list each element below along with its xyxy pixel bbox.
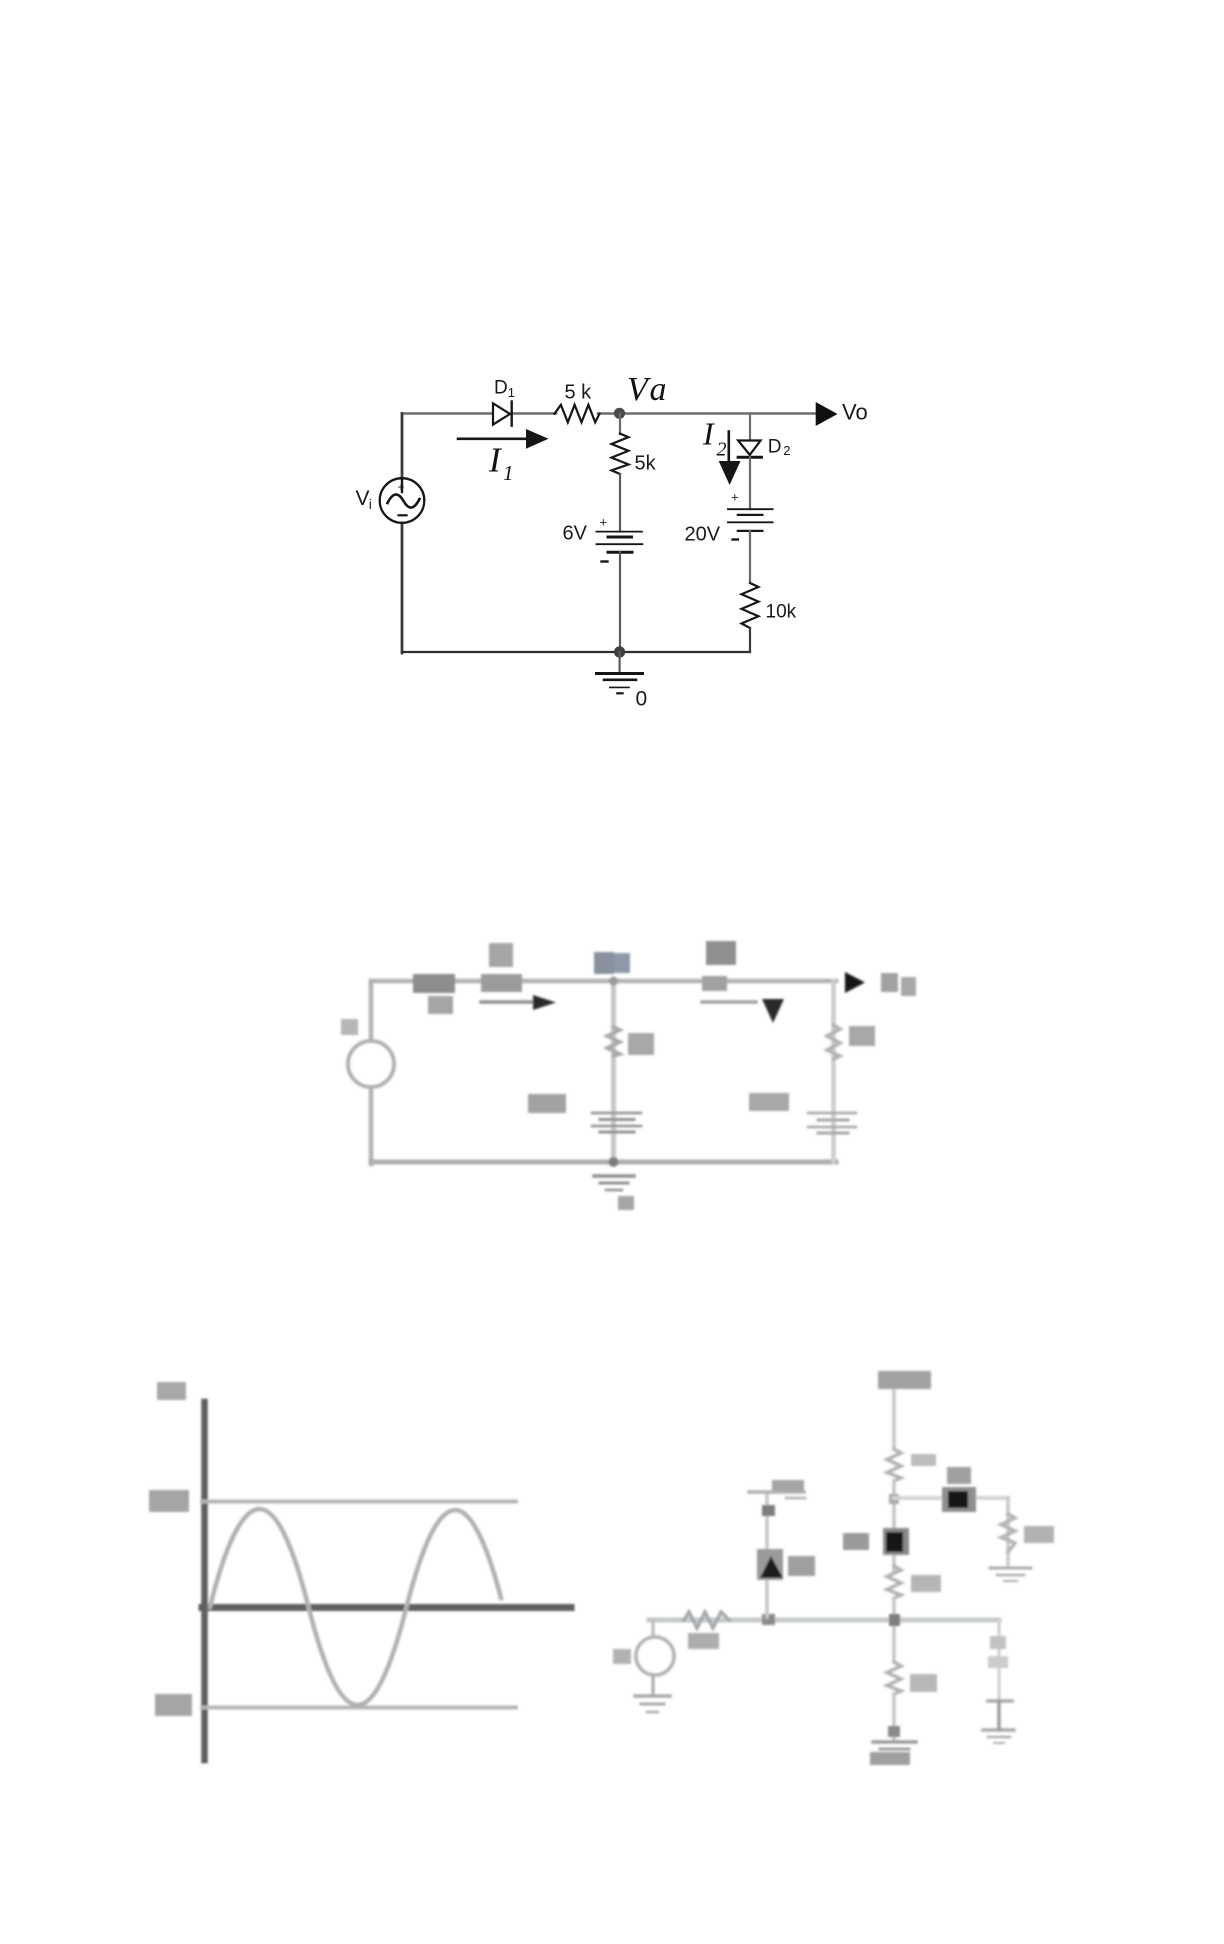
svg-text:5k: 5k [635, 453, 657, 475]
battery right blob [808, 1113, 856, 1133]
label 6V [528, 1094, 566, 1113]
svg-text:I: I [702, 416, 715, 452]
label D2 [706, 941, 736, 965]
sine wave [210, 1509, 501, 1705]
wire to ground center [892, 1694, 896, 1740]
wire diode branch vertical [765, 1494, 769, 1617]
wire right vertical branch [831, 981, 836, 1162]
wire top mid (D1 to R 5k) [512, 412, 556, 415]
label +V [149, 1490, 189, 1512]
resistor 5k vertical [612, 434, 629, 475]
wire 6V battery to bottom node [619, 552, 621, 652]
current arrow I1 [481, 1000, 533, 1004]
label +10V supply [878, 1371, 931, 1389]
wire bottom horizontal [402, 651, 750, 653]
x axis [202, 1604, 571, 1611]
label Vi [341, 1019, 358, 1035]
label D2 [768, 437, 791, 459]
voltage source Vi circle [636, 1637, 674, 1675]
label RE value [911, 1575, 941, 1592]
label -10V [870, 1752, 910, 1765]
resistor RS on main wire [684, 1612, 729, 1628]
label Vo [881, 973, 898, 992]
wire top left horizontal (Vi to D1) [402, 412, 493, 415]
ground [594, 1176, 634, 1190]
svg-text:1: 1 [508, 385, 515, 400]
wire node to ground [618, 652, 620, 673]
supply bar top [749, 1492, 805, 1498]
level line +V [202, 1500, 516, 1504]
wire mid vertical branch [611, 981, 616, 1162]
svg-text:2: 2 [783, 443, 790, 458]
label 0 [618, 1196, 634, 1210]
output arrow Vo [816, 402, 838, 426]
y axis [201, 1402, 208, 1760]
label zener value [788, 1556, 815, 1576]
label D1 [494, 378, 515, 401]
label RC value [911, 1454, 936, 1466]
diode D2 blob on wire [702, 976, 727, 991]
node Va label [594, 952, 614, 974]
ground below source [635, 1675, 670, 1712]
svg-text:a: a [650, 371, 667, 408]
wire main horizontal [649, 1618, 999, 1623]
resistor RL blob [1001, 1514, 1015, 1552]
wire left vertical [369, 981, 374, 1041]
wire emitter down [892, 1598, 896, 1662]
svg-text:I: I [488, 441, 503, 480]
svg-text:+: + [600, 515, 608, 530]
wire top horizontal [371, 979, 836, 984]
svg-text:Vo: Vo [842, 400, 868, 425]
node ground junction dot [614, 646, 625, 657]
svg-text:D: D [494, 378, 508, 399]
label right resistor [849, 1026, 875, 1046]
battery 20V [728, 490, 773, 540]
wire top right (R 5k to Vo arrow) [598, 412, 816, 415]
label 5k blob [489, 943, 513, 967]
resistor R2 below main [887, 1662, 901, 1694]
label D5 [947, 1467, 971, 1484]
wire collector to output [894, 1496, 1008, 1500]
transistor Q1 blob [883, 1528, 909, 1555]
resistor RC [887, 1449, 901, 1481]
wire left vertical (Vi branch) [401, 414, 404, 480]
wire supply stub [892, 1391, 896, 1449]
diode D5 blob [942, 1487, 976, 1512]
diode D1 blob [413, 974, 455, 993]
node dot [609, 977, 618, 986]
resistor blob [481, 974, 522, 992]
ground 0 [597, 674, 643, 694]
current arrow I2 [702, 1000, 756, 1004]
svg-text:6V: 6V [563, 523, 588, 545]
resistor 10k vertical [742, 583, 759, 628]
node ground center [888, 1726, 900, 1737]
wire 20V battery to 10k [749, 531, 751, 583]
label I2 [702, 416, 727, 461]
label axis top [157, 1382, 186, 1400]
wire D2 to 20V battery [749, 457, 751, 509]
label RS value [688, 1633, 719, 1649]
ground right [990, 1568, 1031, 1581]
label 5k [628, 1033, 654, 1055]
wire resistor to 6V battery [619, 474, 621, 532]
resistor RE [887, 1566, 901, 1598]
wire top to D2 [749, 414, 751, 441]
svg-text:+: + [398, 480, 405, 494]
svg-text:D: D [768, 437, 782, 458]
capacitor blob [983, 1701, 1014, 1730]
ground right bottom [988, 1737, 1010, 1743]
svg-text:V: V [356, 487, 370, 510]
battery 6V [597, 515, 643, 562]
wire 10k to bottom [749, 628, 751, 652]
current arrow I1 [458, 429, 549, 449]
resistor 5k horizontal [555, 405, 600, 423]
label -V [155, 1694, 192, 1716]
resistor 5k vertical blob [607, 1027, 620, 1056]
svg-text:+: + [731, 490, 739, 505]
resistor right blob [827, 1025, 840, 1059]
label I1 blob [428, 996, 453, 1014]
label Q1 [843, 1533, 869, 1550]
svg-text:i: i [369, 496, 372, 512]
joint blob below bar [762, 1505, 775, 1516]
node dot bottom [609, 1157, 619, 1167]
wire bottom horizontal [371, 1160, 836, 1165]
capacitor stem [997, 1701, 1001, 1730]
label 0.7 [749, 1093, 789, 1111]
label Vi [613, 1649, 631, 1664]
svg-text:2: 2 [717, 439, 727, 461]
svg-text:V: V [627, 371, 652, 408]
wire collector [892, 1481, 896, 1570]
label RL value [1024, 1526, 1054, 1543]
node collector [889, 1494, 899, 1504]
svg-text:10k: 10k [766, 602, 797, 623]
label +2.5V [772, 1480, 804, 1491]
diode zener blob [757, 1549, 783, 1580]
label R2 value [910, 1674, 937, 1692]
node base junction [762, 1614, 775, 1625]
ground center [873, 1742, 916, 1749]
diode D2 [738, 441, 761, 458]
wire source stub [651, 1620, 655, 1638]
label I1 [488, 441, 514, 486]
battery 6V blob [592, 1113, 641, 1132]
output arrow Vo [845, 972, 865, 993]
voltage source Vi [380, 478, 425, 523]
diode D1 [493, 402, 512, 426]
current arrow I2 [719, 432, 741, 486]
svg-text:1: 1 [503, 461, 514, 485]
svg-text:20V: 20V [685, 524, 721, 546]
wire output branch [1006, 1498, 1010, 1566]
voltage source [348, 1041, 394, 1087]
wire Va node down to resistor [619, 414, 621, 435]
svg-text:0: 0 [636, 688, 648, 711]
node Va dot [614, 408, 625, 419]
node emitter-main [889, 1614, 900, 1626]
label C value [990, 1636, 1006, 1649]
svg-text:5 k: 5 k [565, 382, 593, 404]
label Vi [356, 487, 372, 512]
level line -V [202, 1706, 516, 1710]
wire right output branch [998, 1620, 1001, 1700]
